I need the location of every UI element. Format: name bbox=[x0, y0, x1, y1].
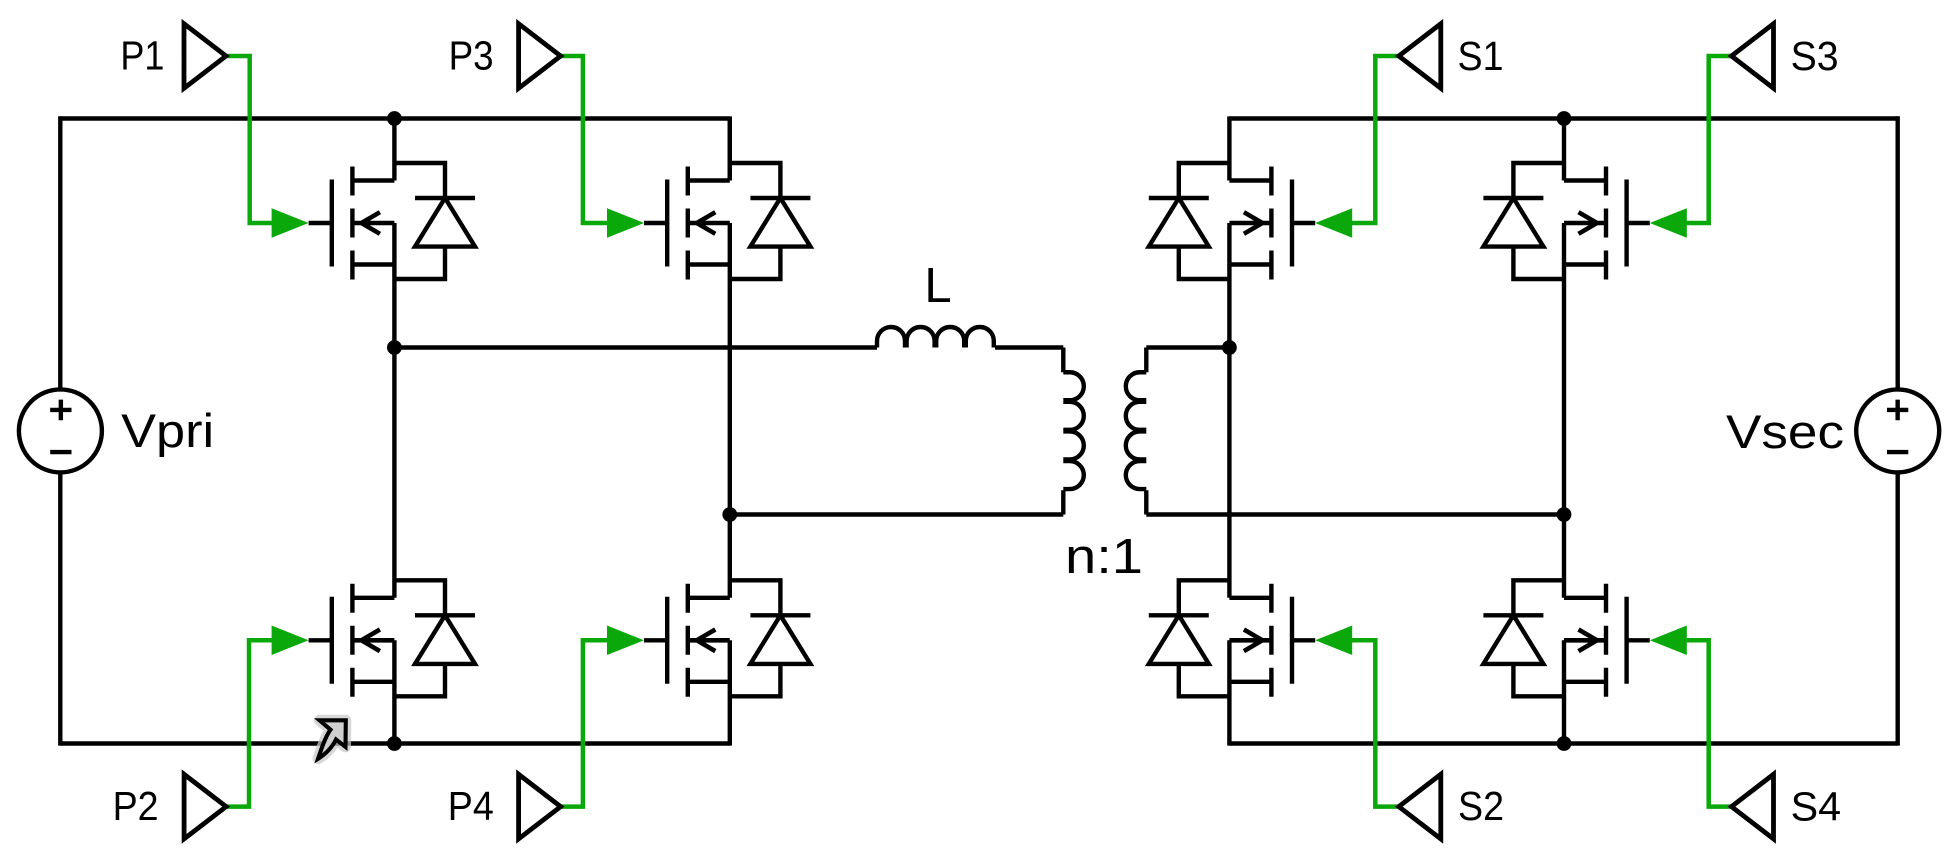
wire: left top rail bbox=[60, 116, 730, 120]
wire: drain lead of Q4 bbox=[688, 512, 730, 597]
wire: gate drive P2 (green) bbox=[226, 640, 274, 806]
wire: source lead of Q3 bbox=[688, 223, 730, 517]
node: right leg2 bottom bbox=[1557, 736, 1572, 751]
wire: gate drive P3 (green) bbox=[561, 56, 609, 223]
inductor L bbox=[877, 327, 994, 348]
buffer S3 (gate drive input) bbox=[1732, 24, 1774, 89]
transistor Q6: channel segments bbox=[1269, 584, 1273, 697]
transistor Q5: gate electrode bbox=[1292, 180, 1315, 267]
voltage source Vpri bbox=[19, 389, 102, 472]
svg-text:S1: S1 bbox=[1458, 33, 1504, 79]
diode: body diode of Q5 bbox=[1149, 163, 1230, 279]
svg-text:P1: P1 bbox=[120, 33, 164, 79]
gate arrow P1 bbox=[272, 208, 309, 238]
transistor Q6: gate electrode bbox=[1292, 597, 1315, 684]
wire: primary bottom return to leg2 midpoint bbox=[730, 512, 1064, 516]
diode: body diode of Q3 bbox=[730, 163, 811, 279]
transistor Q2: gate electrode bbox=[309, 597, 332, 684]
wire: gate drive P4 (green) bbox=[561, 640, 609, 806]
wire: gate drive S3 (green) bbox=[1685, 56, 1732, 223]
wire: drain lead of Q7 bbox=[1564, 116, 1606, 180]
gate arrow P2 bbox=[272, 626, 309, 656]
wire: gate drive S1 (green) bbox=[1350, 56, 1399, 223]
wire: right rail upper segment bbox=[1895, 116, 1899, 389]
wire: source lead of Q4 bbox=[688, 640, 730, 745]
buffer P4 (gate drive input) bbox=[519, 774, 561, 839]
transistor Q8: channel segments bbox=[1604, 584, 1608, 697]
svg-text:S3: S3 bbox=[1791, 33, 1839, 79]
gate arrow S4 bbox=[1650, 626, 1687, 656]
diode: body diode of Q7 bbox=[1483, 163, 1564, 279]
wire: left bottom rail bbox=[60, 741, 730, 745]
wire: leg1 midpoint to inductor bbox=[394, 345, 877, 349]
wire: source lead of Q6 bbox=[1229, 640, 1271, 745]
diode: body diode of Q6 bbox=[1149, 580, 1230, 696]
diode: body diode of Q4 bbox=[730, 580, 811, 696]
transistor Q3: channel segments bbox=[686, 167, 690, 280]
gate arrow P3 bbox=[607, 208, 644, 238]
diode: body diode of Q2 bbox=[394, 580, 475, 696]
svg-text:Vpri: Vpri bbox=[121, 405, 214, 458]
wire: gate drive P1 (green) bbox=[226, 56, 274, 223]
transistor Q4: body arrow bbox=[688, 630, 730, 652]
transistor Q4: gate electrode bbox=[644, 597, 667, 684]
wire: left rail lower segment bbox=[58, 472, 62, 745]
node: left leg1 midpoint bbox=[387, 340, 402, 355]
node: left leg1 top bbox=[387, 111, 402, 126]
transistor Q5: body arrow bbox=[1229, 212, 1271, 234]
transistor Q6: body arrow bbox=[1229, 630, 1271, 652]
transformer T1 primary winding bbox=[1063, 348, 1084, 515]
buffer S2 (gate drive input) bbox=[1399, 774, 1441, 839]
node: right leg2 top bbox=[1557, 111, 1572, 126]
buffer P1 (gate drive input) bbox=[184, 24, 226, 89]
gate arrow P4 bbox=[607, 626, 644, 656]
node: right leg1 midpoint bbox=[1222, 340, 1237, 355]
wire: source lead of Q7 bbox=[1564, 223, 1606, 517]
svg-text:n:1: n:1 bbox=[1065, 530, 1143, 584]
voltage source Vsec bbox=[1856, 389, 1939, 472]
buffer P2 (gate drive input) bbox=[184, 774, 226, 839]
wire: secondary bottom to right leg2 midpoint bbox=[1146, 512, 1564, 516]
diode: body diode of Q1 bbox=[394, 163, 475, 279]
gate arrow S3 bbox=[1650, 208, 1687, 238]
svg-text:L: L bbox=[924, 259, 951, 313]
buffer S4 (gate drive input) bbox=[1732, 774, 1774, 839]
wire: right bottom rail bbox=[1229, 741, 1897, 745]
wire: right rail lower segment bbox=[1895, 472, 1899, 745]
svg-text:P4: P4 bbox=[448, 783, 494, 829]
transistor Q1: body arrow bbox=[352, 212, 394, 234]
transistor Q2: body arrow bbox=[352, 630, 394, 652]
wire: source lead of Q8 bbox=[1564, 640, 1606, 745]
svg-text:S4: S4 bbox=[1791, 783, 1842, 829]
node: left leg1 bottom bbox=[387, 736, 402, 751]
mouse cursor bbox=[318, 720, 346, 758]
wire: drain lead of Q3 bbox=[688, 116, 730, 180]
svg-text:S2: S2 bbox=[1458, 783, 1504, 829]
transistor Q3: body arrow bbox=[688, 212, 730, 234]
transformer T1 secondary winding bbox=[1126, 348, 1147, 515]
node: right leg2 midpoint bbox=[1557, 507, 1572, 522]
transistor Q4: channel segments bbox=[686, 584, 690, 697]
svg-text:Vsec: Vsec bbox=[1726, 406, 1844, 459]
transistor Q7: body arrow bbox=[1564, 212, 1606, 234]
transistor Q8: gate electrode bbox=[1627, 597, 1650, 684]
wire: left rail upper segment bbox=[58, 116, 62, 389]
wire: inductor to transformer primary bbox=[995, 345, 1063, 349]
transistor Q3: gate electrode bbox=[644, 180, 667, 267]
wire: source lead of Q5 bbox=[1229, 223, 1271, 350]
transistor Q5: channel segments bbox=[1269, 167, 1273, 280]
transistor Q2: channel segments bbox=[350, 584, 354, 697]
diode: body diode of Q8 bbox=[1483, 580, 1564, 696]
svg-text:P2: P2 bbox=[113, 783, 159, 829]
wire: drain lead of Q6 bbox=[1229, 345, 1271, 597]
buffer P3 (gate drive input) bbox=[519, 24, 561, 89]
wire: gate drive S4 (green) bbox=[1685, 640, 1732, 806]
gate arrow S1 bbox=[1315, 208, 1352, 238]
transistor Q1: channel segments bbox=[350, 167, 354, 280]
transistor Q1: gate electrode bbox=[309, 180, 332, 267]
wire: source lead of Q1 bbox=[352, 223, 394, 350]
transistor Q8: body arrow bbox=[1564, 630, 1606, 652]
wire: drain lead of Q2 bbox=[352, 345, 394, 597]
wire: left leg2 top segment bbox=[728, 119, 732, 181]
transistor Q7: gate electrode bbox=[1627, 180, 1650, 267]
wire: right top rail bbox=[1229, 116, 1897, 120]
svg-text:P3: P3 bbox=[449, 33, 494, 79]
wire: secondary top to right leg1 midpoint bbox=[1146, 345, 1229, 349]
wire: gate drive S2 (green) bbox=[1350, 640, 1399, 806]
wire: source lead of Q2 bbox=[352, 640, 394, 745]
gate arrow S2 bbox=[1315, 626, 1352, 656]
wire: drain lead of Q5 bbox=[1229, 116, 1271, 180]
wire: drain lead of Q1 bbox=[352, 116, 394, 180]
wire: drain lead of Q8 bbox=[1564, 512, 1606, 597]
transistor Q7: channel segments bbox=[1604, 167, 1608, 280]
buffer S1 (gate drive input) bbox=[1399, 24, 1441, 89]
node: left leg2 midpoint bbox=[722, 507, 737, 522]
